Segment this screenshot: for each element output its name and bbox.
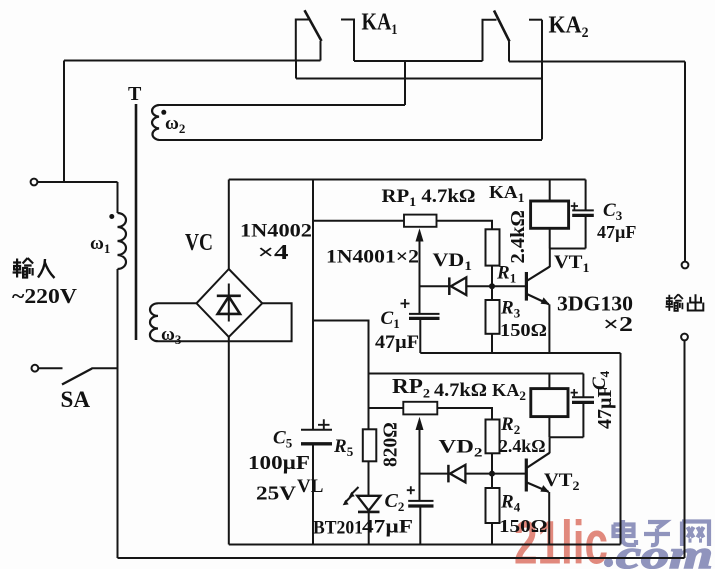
wire bridge bottom lead bbox=[228, 337, 230, 545]
wire R3 top lead bbox=[491, 286, 493, 300]
svg-text:×4: ×4 bbox=[258, 240, 290, 264]
wire R5 to LED bbox=[368, 461, 370, 496]
svg-text:C3: C3 bbox=[603, 200, 623, 223]
wire VT2 collector lead bbox=[549, 437, 551, 453]
wire C1 bottom lead bbox=[419, 318, 421, 353]
LED VL arrow 2 bbox=[345, 495, 353, 503]
svg-text:1N4001×2: 1N4001×2 bbox=[326, 247, 419, 268]
wire top rail right segment bbox=[509, 61, 685, 63]
svg-text:KA2: KA2 bbox=[549, 13, 589, 42]
relay contact KA1 left post bbox=[296, 20, 309, 61]
wire w3 top lead bbox=[158, 302, 197, 304]
polarity dot w1 bbox=[109, 214, 114, 219]
svg-text:820Ω: 820Ω bbox=[381, 422, 402, 467]
capacitor C4 plate bottom bbox=[572, 401, 594, 404]
label ru (input char2) bbox=[38, 259, 55, 278]
svg-text:R5: R5 bbox=[333, 436, 354, 459]
rectifier bridge VC body bbox=[197, 269, 263, 337]
wire bridge top lead bbox=[228, 180, 230, 270]
relay contact KA2 blade bbox=[494, 11, 510, 42]
svg-text:RP2: RP2 bbox=[392, 374, 430, 401]
wire R3 bottom lead bbox=[491, 334, 493, 353]
wire RP1 feed bbox=[313, 220, 404, 222]
resistor R4 body bbox=[486, 488, 500, 523]
wire input to w1 bbox=[117, 182, 119, 213]
wire KA1 coil bottom lead bbox=[549, 228, 551, 248]
wire KA2 coil top lead bbox=[548, 374, 550, 389]
capacitor C5 plate top bbox=[301, 429, 332, 431]
RP2 wiper stem bbox=[419, 429, 421, 501]
wire inner bottom rail bbox=[229, 544, 621, 546]
C3 polarity plus bbox=[571, 202, 578, 209]
output terminal (bottom) bbox=[681, 334, 688, 341]
bridge diode stem bottom bbox=[228, 297, 230, 322]
svg-text:2.4kΩ: 2.4kΩ bbox=[507, 210, 529, 263]
wire output bottom down bbox=[684, 340, 686, 558]
svg-text:VL: VL bbox=[297, 476, 323, 497]
wire cross link y78 bbox=[296, 78, 542, 80]
transistor VT1 emitter bbox=[526, 294, 549, 305]
wire positive riser x313 bbox=[312, 180, 314, 430]
transistor VT2 emitter bbox=[526, 482, 549, 492]
wire KA1/C3 bottom link bbox=[550, 248, 586, 250]
svg-text:KA2: KA2 bbox=[492, 380, 526, 403]
winding w2 coil bbox=[152, 105, 159, 140]
polarity dot w2 bbox=[161, 110, 166, 115]
wire RP2 feed bbox=[369, 407, 404, 409]
relay contact KA2 right terminal tick bbox=[529, 19, 542, 21]
svg-text:25V: 25V bbox=[256, 483, 296, 505]
winding w3 coil bbox=[150, 303, 158, 341]
transistor VT1 emitter arrowhead bbox=[541, 297, 550, 304]
diode VD1 cathode bar bbox=[448, 277, 451, 295]
svg-text:R3: R3 bbox=[500, 298, 521, 321]
relay contact KA1 blade bbox=[305, 10, 322, 41]
transistor VT2 collector bbox=[526, 453, 550, 469]
relay coil KA2 body bbox=[531, 389, 568, 417]
C4 polarity plus bbox=[571, 389, 578, 396]
wire w3 return loop bbox=[158, 303, 292, 341]
potentiometer RP2 body bbox=[403, 402, 437, 415]
svg-text:VT1: VT1 bbox=[554, 252, 590, 275]
wire riser to top rail bbox=[63, 61, 65, 183]
wire winding w2 top lead bbox=[159, 104, 405, 106]
watermark wang char bbox=[682, 522, 709, 547]
resistor R2 body bbox=[486, 420, 500, 454]
wire RP1 to R1 bbox=[437, 221, 493, 230]
wire KA2/C4 bottom link bbox=[549, 436, 583, 438]
RP2 wiper arrowhead bbox=[416, 417, 424, 430]
transistor VT2 emitter arrowhead bbox=[540, 485, 549, 492]
relay coil KA1 body bbox=[531, 201, 569, 228]
wire R4 top lead bbox=[491, 474, 493, 488]
bridge diode bar bbox=[217, 294, 241, 297]
wire top rail middle segment bbox=[354, 60, 483, 62]
LED VL triangle bbox=[357, 496, 380, 511]
wire C2 bottom lead bbox=[419, 506, 421, 545]
wire C3 bottom lead bbox=[585, 215, 587, 248]
svg-text:SA: SA bbox=[61, 387, 91, 412]
wire right rail to output bbox=[684, 62, 686, 262]
wire riser x405 bbox=[404, 61, 406, 105]
wire winding w2 bottom lead bbox=[159, 139, 542, 141]
svg-text:C2: C2 bbox=[385, 490, 405, 514]
wire negative link y353 bbox=[420, 352, 620, 354]
capacitor C3 plate top bbox=[572, 209, 594, 211]
wire KA2 coil bottom lead bbox=[548, 417, 550, 438]
wire C4 top lead bbox=[582, 374, 584, 398]
capacitor C3 plate bottom bbox=[572, 214, 594, 217]
svg-text:47µF: 47µF bbox=[597, 222, 636, 242]
svg-text:1N4002: 1N4002 bbox=[240, 222, 312, 242]
input terminal (bottom) bbox=[32, 365, 39, 372]
watermark dian char bbox=[614, 520, 637, 545]
svg-text:VD2: VD2 bbox=[439, 438, 483, 460]
wire VT1 collector lead bbox=[549, 249, 551, 268]
junction node base VT2 bbox=[489, 471, 495, 477]
wire R2 bottom lead bbox=[491, 453, 493, 473]
wire bottom outer rail bbox=[118, 557, 685, 559]
resistor R3 body bbox=[486, 300, 500, 334]
LED VL arrow 1 bbox=[351, 487, 359, 495]
wire w1 bottom / left rail down bbox=[117, 269, 119, 558]
wire input top to transformer bbox=[37, 181, 117, 183]
wire from bottom input terminal bbox=[38, 367, 62, 369]
svg-text:ω1: ω1 bbox=[90, 233, 110, 256]
LED VL cathode bar bbox=[358, 511, 380, 514]
capacitor C1 plate bottom bbox=[409, 317, 440, 320]
wire SA to left rail bbox=[92, 367, 118, 369]
diode VD1 triangle bbox=[451, 277, 466, 295]
wire KA2 right terminal drop bbox=[541, 20, 543, 140]
C1 polarity plus bbox=[401, 299, 410, 308]
svg-text:T: T bbox=[128, 83, 142, 105]
svg-text:R4: R4 bbox=[500, 492, 521, 515]
svg-text:RP1 4.7kΩ: RP1 4.7kΩ bbox=[382, 186, 476, 209]
wire channel2 top rail bbox=[369, 373, 584, 375]
transistor VT1 collector bbox=[526, 267, 550, 282]
C5 polarity plus bbox=[318, 419, 330, 430]
wire negative riser x620 bbox=[620, 353, 622, 545]
wire VD1 to base bbox=[466, 285, 525, 287]
bridge diode stem top bbox=[228, 284, 230, 297]
bridge diode triangle bbox=[218, 297, 240, 314]
svg-text:150Ω: 150Ω bbox=[499, 516, 548, 536]
wire stub KA1 node down bbox=[295, 61, 297, 79]
capacitor C1 plate top bbox=[409, 313, 440, 315]
transformer core bbox=[135, 104, 138, 340]
wire C4 bottom lead bbox=[582, 402, 584, 437]
wire R1 bottom lead bbox=[491, 266, 493, 287]
wire VD2 to base bbox=[465, 473, 525, 475]
svg-text:150Ω: 150Ω bbox=[500, 320, 547, 340]
svg-text:100µF: 100µF bbox=[248, 452, 310, 474]
watermark .com dot bbox=[604, 558, 613, 567]
svg-text:47µF: 47µF bbox=[362, 517, 413, 538]
svg-text:C5: C5 bbox=[273, 428, 293, 451]
switch SA blade bbox=[62, 369, 92, 385]
wire C3 top lead bbox=[585, 180, 587, 211]
wire wiper to VD1 bbox=[420, 285, 450, 287]
svg-text:R1: R1 bbox=[496, 263, 516, 286]
output terminal (top) bbox=[682, 262, 689, 269]
label shu (input char1) bbox=[13, 258, 33, 278]
wire RP2 to R2 bbox=[437, 408, 492, 420]
svg-text:47µF: 47µF bbox=[375, 333, 419, 353]
wire wiper2 to VD2 bbox=[420, 473, 448, 475]
svg-text:47µF: 47µF bbox=[594, 385, 616, 429]
label shu (output char1) bbox=[666, 294, 683, 311]
input terminal (top) bbox=[31, 179, 38, 186]
capacitor C2 plate bottom bbox=[408, 504, 433, 507]
svg-text:KA1: KA1 bbox=[362, 10, 398, 39]
RP1 wiper arrowhead bbox=[416, 228, 424, 241]
wire top rail left segment bbox=[64, 60, 321, 62]
relay contact KA1 right terminal bbox=[341, 20, 354, 62]
wire KA1 coil top lead bbox=[549, 180, 551, 202]
diode VD2 cathode bar bbox=[447, 465, 450, 483]
svg-text:ω2: ω2 bbox=[165, 113, 185, 136]
wire R4 bottom lead bbox=[491, 523, 493, 545]
RP1 wiper stem bbox=[419, 240, 421, 314]
capacitor C5 plate bottom bbox=[301, 442, 332, 445]
potentiometer RP1 body bbox=[404, 215, 437, 227]
relay contact KA1 blade tip lead bbox=[320, 41, 322, 61]
wire branch to channel2 bbox=[313, 321, 369, 430]
label chu (output char2) bbox=[688, 294, 704, 310]
svg-text:×2: ×2 bbox=[603, 312, 633, 336]
capacitor C4 plate top bbox=[572, 396, 594, 398]
junction node base VT1 bbox=[489, 283, 495, 289]
svg-text:~220V: ~220V bbox=[12, 284, 77, 308]
svg-text:4.7kΩ: 4.7kΩ bbox=[434, 381, 487, 401]
svg-text:2.4kΩ: 2.4kΩ bbox=[499, 436, 546, 456]
svg-text:VC: VC bbox=[185, 230, 213, 256]
wire top inner rail bbox=[229, 179, 586, 181]
svg-text:VT2: VT2 bbox=[544, 470, 580, 493]
wire VT2 emitter lead bbox=[548, 492, 550, 545]
resistor R5 body bbox=[363, 429, 377, 461]
svg-text:VD1: VD1 bbox=[433, 251, 473, 273]
winding w1 coil bbox=[118, 213, 127, 269]
svg-text:R2: R2 bbox=[500, 414, 520, 437]
capacitor C2 plate top bbox=[408, 500, 433, 502]
relay contact KA2 left post bbox=[483, 20, 497, 61]
svg-text:BT201: BT201 bbox=[313, 518, 363, 539]
diode VD2 triangle bbox=[450, 465, 465, 483]
svg-text:KA1: KA1 bbox=[489, 182, 525, 205]
svg-text:C1: C1 bbox=[381, 308, 400, 331]
wire VT1 emitter lead bbox=[548, 304, 550, 353]
svg-text:ω3: ω3 bbox=[161, 324, 182, 347]
transistor VT2 base bar bbox=[525, 459, 528, 492]
wire C5 bottom lead bbox=[312, 444, 314, 545]
relay contact KA2 blade tip lead bbox=[508, 42, 510, 62]
resistor R1 body bbox=[486, 229, 500, 265]
watermark zi char bbox=[644, 522, 670, 545]
C2 polarity plus bbox=[407, 486, 415, 494]
wire LED bottom lead bbox=[368, 512, 370, 545]
transistor VT1 base bar bbox=[525, 272, 528, 301]
